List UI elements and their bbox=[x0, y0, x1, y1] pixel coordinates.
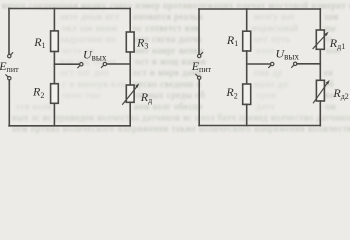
wire bottom edge (left circuit) bbox=[9, 125, 130, 127]
wire middle branch upper (right circuit) bbox=[246, 9, 248, 31]
wire right edge upper (right circuit) bbox=[319, 9, 321, 30]
wire bottom edge (right circuit) bbox=[199, 125, 320, 127]
wire right edge center bbox=[129, 52, 131, 85]
terminal Eпит + (right circuit) bbox=[198, 54, 201, 57]
wire left edge upper segment bbox=[8, 9, 10, 55]
svg-text:задративн по: задративн по bbox=[60, 34, 116, 44]
svg-text:мозгу нат: мозгу нат bbox=[254, 12, 295, 22]
svg-text:зам: зам bbox=[324, 12, 339, 22]
svg-text:ос сответст изм: ос сответст изм bbox=[133, 23, 200, 33]
wire middle branch center (right circuit) bbox=[246, 51, 248, 84]
resistor R2 (right circuit) bbox=[243, 84, 251, 104]
terminal Eпит + (upper left) bbox=[8, 54, 11, 57]
svg-text:датч: датч bbox=[256, 101, 275, 111]
terminal Uвых right bbox=[103, 62, 106, 65]
svg-text:тся колв: тся колв bbox=[16, 101, 51, 111]
wire left edge lower segment bbox=[8, 80, 10, 126]
svg-text:ване: ване bbox=[256, 45, 275, 55]
svg-text:ных зс вс приведен колчества д: ных зс вс приведен колчества датчиков вс… bbox=[12, 113, 350, 123]
svg-text:нет путь: нет путь bbox=[254, 34, 290, 44]
wire left edge upper segment (right circuit) bbox=[198, 9, 200, 54]
wire right edge lower (right circuit) bbox=[319, 101, 321, 126]
wire top edge (right circuit) bbox=[199, 8, 320, 10]
wire output left (to Uвых) bbox=[54, 63, 79, 65]
wire middle branch center bbox=[53, 52, 55, 84]
resistor Rд2 (variable) bbox=[316, 80, 324, 101]
resistor R3 bbox=[126, 32, 134, 52]
svg-text:окл зак вним: окл зак вним bbox=[62, 23, 117, 33]
svg-text:с и минерв вло: с и минерв вло bbox=[62, 79, 126, 89]
wire left edge lower segment (right circuit) bbox=[198, 80, 200, 126]
wire right edge upper bbox=[129, 9, 131, 33]
terminal Uвых right (right circuit) bbox=[294, 62, 297, 65]
svg-text:ост лог доп: ост лог доп bbox=[60, 68, 109, 78]
wire output right bbox=[107, 63, 131, 65]
terminal Uвых left bbox=[80, 62, 83, 65]
resistor Rд1 (variable) bbox=[316, 30, 324, 49]
svg-text:выхо дн: выхо дн bbox=[254, 79, 288, 89]
wire middle branch upper bbox=[53, 9, 55, 31]
svg-text:овме твы: овме твы bbox=[62, 90, 101, 100]
svg-text:ом: ом bbox=[325, 101, 336, 111]
wire middle branch lower bbox=[53, 103, 55, 126]
wire right edge center (right circuit) bbox=[319, 49, 321, 80]
wire right edge lower bbox=[129, 102, 131, 126]
bleed-through ghost text (decorative) bbox=[2, 1, 350, 134]
svg-text:акте дныв игл: акте дныв игл bbox=[60, 12, 119, 22]
wire output right (right circuit) bbox=[297, 63, 320, 65]
svg-text:нуско сведени о: нуско сведени о bbox=[133, 79, 202, 89]
wire top edge (left circuit) bbox=[9, 8, 130, 10]
resistor R2 bbox=[51, 84, 59, 104]
terminal Eпит - (right circuit) bbox=[198, 76, 201, 79]
resistor Rд (variable) bbox=[126, 85, 134, 102]
svg-text:нноватся реальн: нноватся реальн bbox=[133, 12, 203, 22]
wire middle branch lower (right circuit) bbox=[246, 104, 248, 125]
svg-text:ея: ея bbox=[324, 68, 333, 78]
terminal Eпит - (lower left) bbox=[8, 77, 11, 80]
svg-text:пив др: пив др bbox=[254, 68, 282, 78]
arrow of Rд1 bbox=[313, 34, 327, 49]
arrow of Rд bbox=[123, 87, 137, 105]
terminal Uвых left (right circuit) bbox=[271, 62, 274, 65]
svg-text:прив: прив bbox=[256, 90, 276, 100]
arrow of Rд2 bbox=[313, 82, 327, 102]
resistor R1 (right circuit) bbox=[243, 31, 251, 51]
svg-text:ны: ны bbox=[324, 23, 336, 33]
wire output left (right circuit) bbox=[247, 63, 271, 65]
svg-text:марисывай: марисывай bbox=[252, 23, 298, 33]
resistor R1 bbox=[51, 31, 59, 52]
